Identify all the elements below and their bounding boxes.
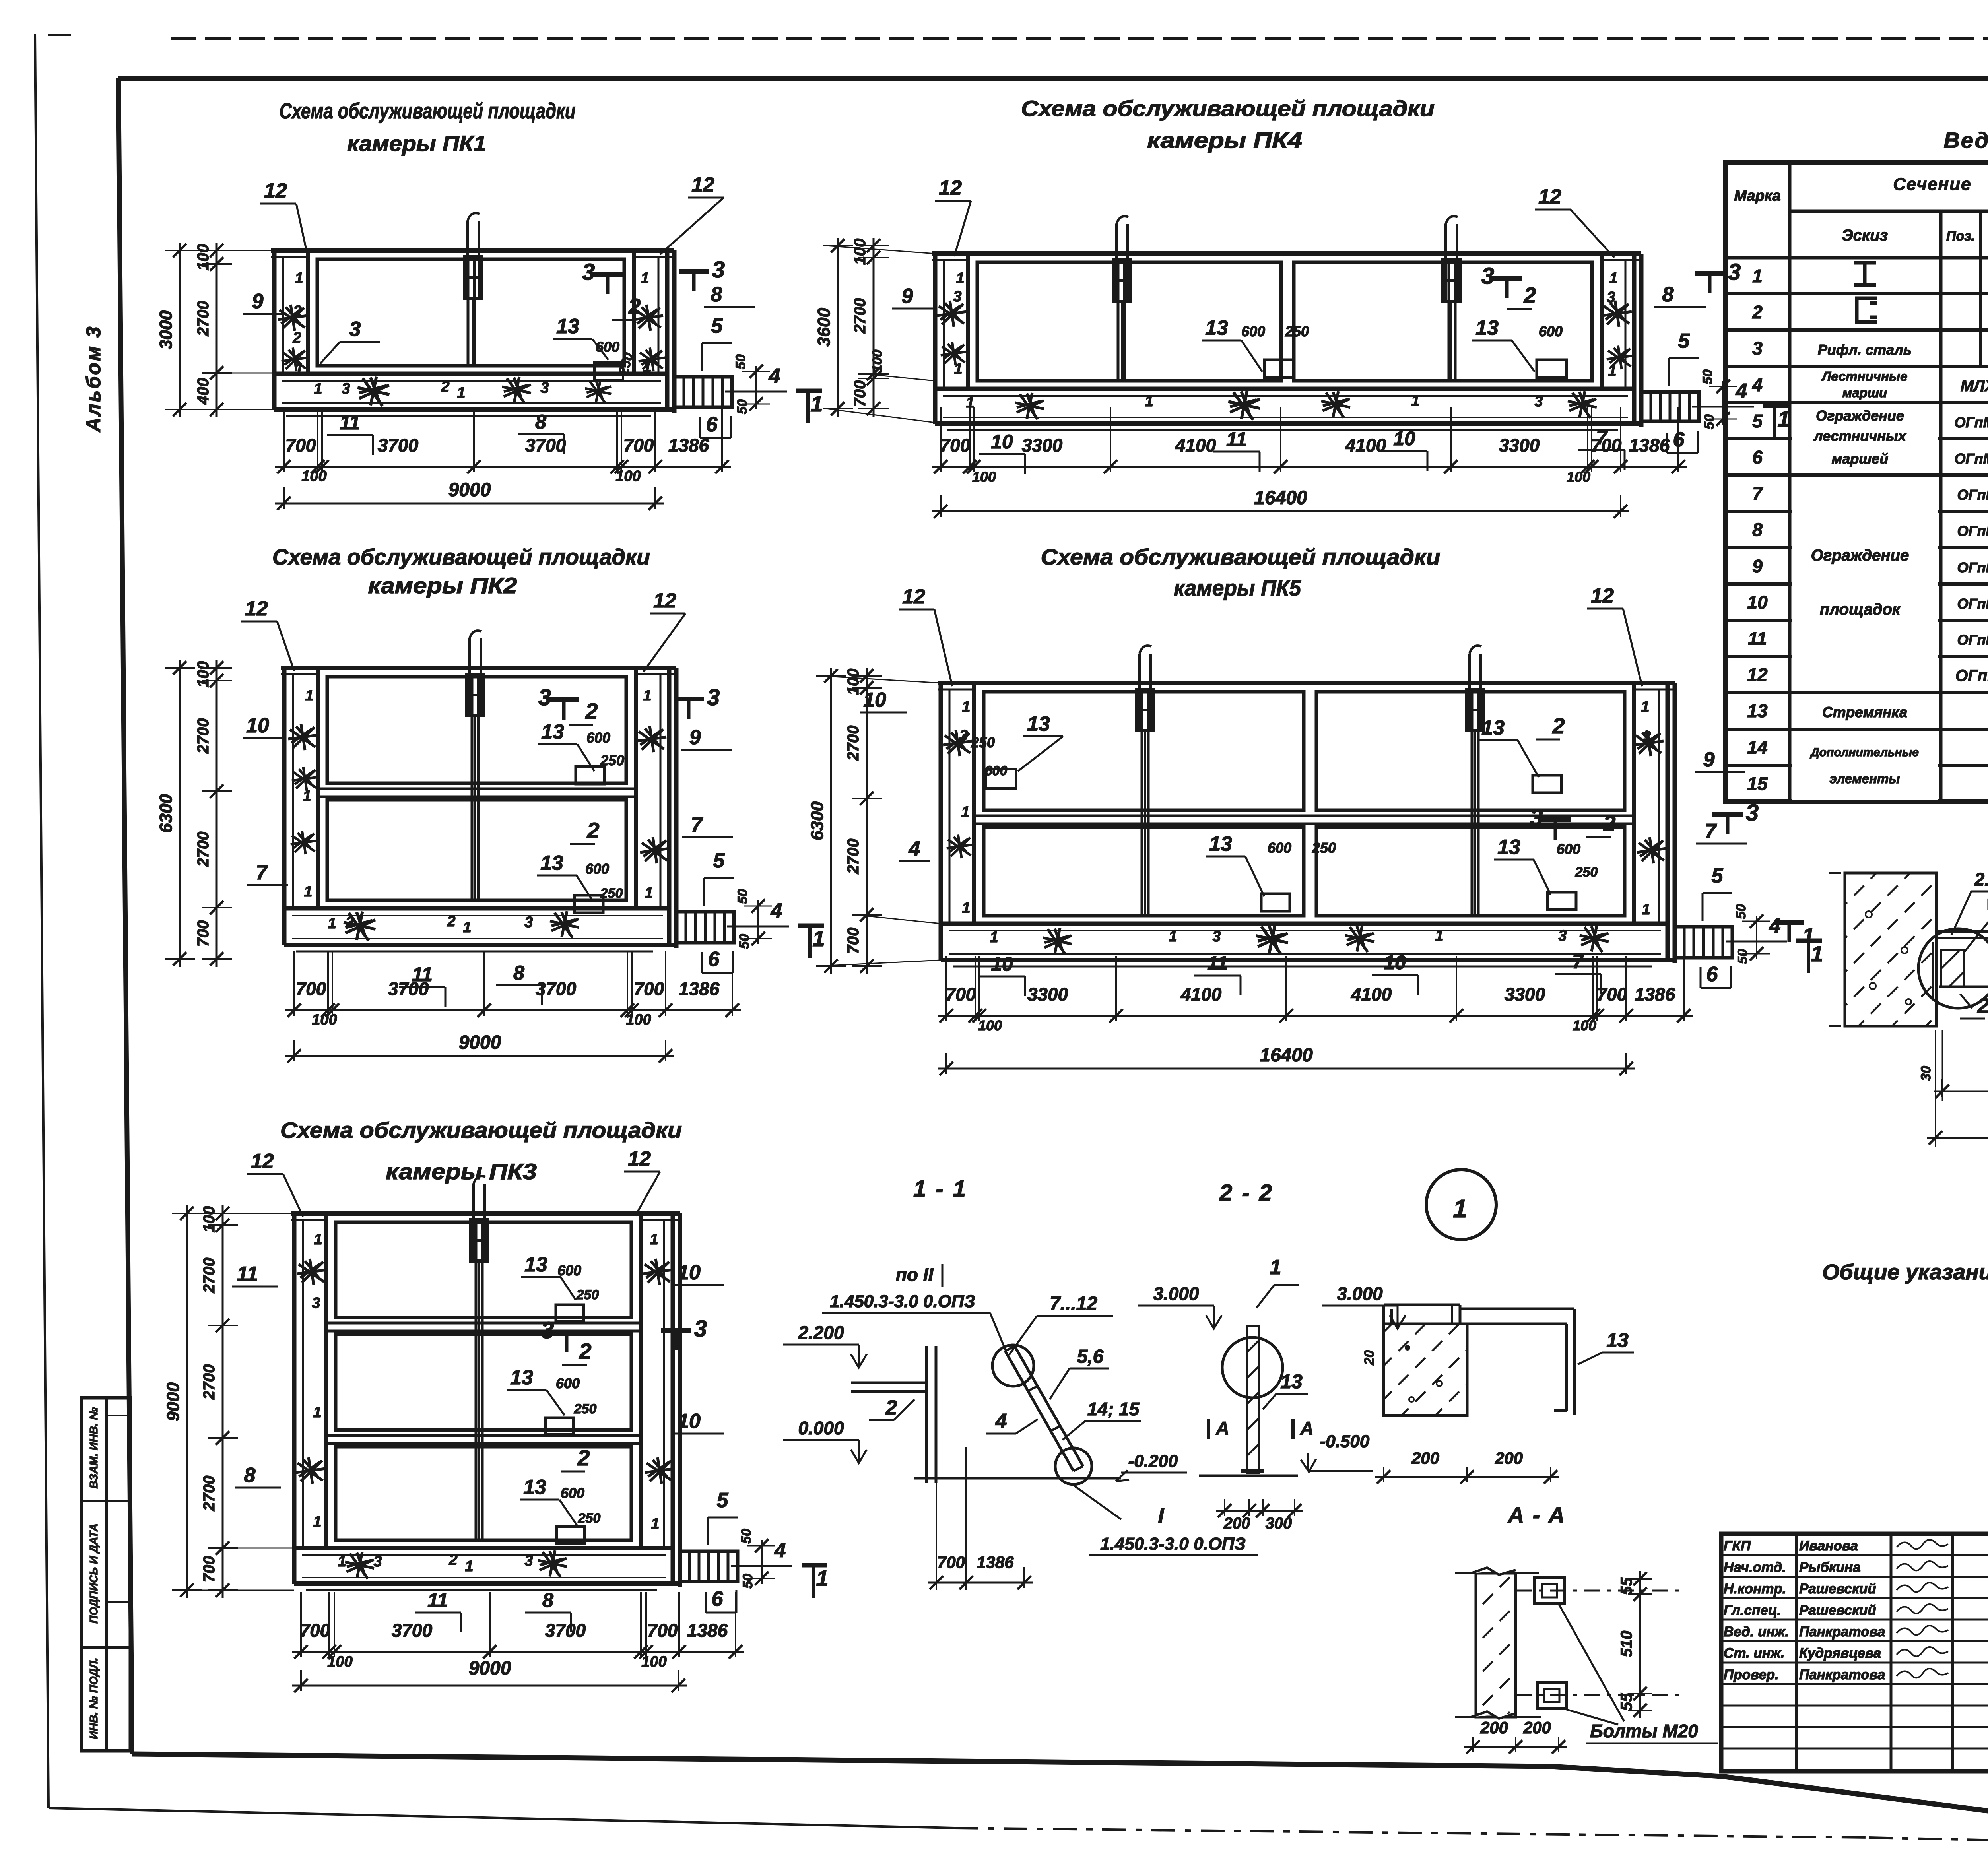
svg-text:4: 4 bbox=[995, 1410, 1007, 1433]
svg-text:A - A: A - A bbox=[1507, 1502, 1567, 1527]
svg-text:ПОДПИСЬ И ДАТА: ПОДПИСЬ И ДАТА bbox=[87, 1523, 100, 1624]
svg-text:Ст. инж.: Ст. инж. bbox=[1724, 1645, 1784, 1661]
svg-text:13: 13 bbox=[523, 1476, 546, 1499]
svg-text:700: 700 bbox=[945, 984, 976, 1005]
svg-text:5: 5 bbox=[1678, 330, 1690, 353]
svg-text:3: 3 bbox=[312, 1295, 320, 1312]
svg-text:13: 13 bbox=[1205, 316, 1228, 340]
svg-text:10: 10 bbox=[246, 714, 269, 737]
svg-text:13: 13 bbox=[1280, 1370, 1303, 1393]
svg-text:1: 1 bbox=[295, 270, 303, 287]
svg-text:1: 1 bbox=[305, 687, 313, 704]
svg-text:2: 2 bbox=[292, 330, 301, 346]
svg-text:3: 3 bbox=[959, 727, 968, 744]
svg-text:700: 700 bbox=[194, 920, 212, 947]
svg-text:2: 2 bbox=[441, 378, 449, 395]
svg-text:2700: 2700 bbox=[200, 1476, 218, 1512]
svg-text:510: 510 bbox=[1618, 1631, 1635, 1657]
svg-text:камеры ПК2: камеры ПК2 bbox=[368, 573, 517, 598]
svg-text:700: 700 bbox=[200, 1556, 218, 1583]
svg-text:700: 700 bbox=[937, 1553, 965, 1572]
svg-text:100: 100 bbox=[327, 1653, 352, 1670]
svg-text:2: 2 bbox=[1977, 994, 1988, 1018]
svg-text:12: 12 bbox=[1591, 584, 1614, 607]
svg-text:6: 6 bbox=[1752, 447, 1763, 468]
svg-text:1: 1 bbox=[816, 1566, 828, 1591]
svg-text:3: 3 bbox=[712, 257, 725, 283]
svg-text:250: 250 bbox=[1285, 323, 1309, 340]
svg-text:3: 3 bbox=[953, 288, 961, 305]
svg-text:50: 50 bbox=[733, 354, 748, 369]
svg-text:4100: 4100 bbox=[1175, 435, 1216, 456]
svg-text:ОГпМХЭБ-10.30: ОГпМХЭБ-10.30 bbox=[1957, 523, 1988, 539]
svg-text:700: 700 bbox=[623, 435, 654, 456]
svg-text:700: 700 bbox=[845, 928, 862, 954]
svg-text:2700: 2700 bbox=[851, 298, 869, 334]
svg-text:9: 9 bbox=[1703, 748, 1715, 771]
svg-text:камеры ПК5: камеры ПК5 bbox=[1174, 575, 1301, 600]
svg-text:100: 100 bbox=[194, 661, 212, 688]
svg-text:16400: 16400 bbox=[1260, 1045, 1313, 1066]
svg-text:1: 1 bbox=[962, 900, 970, 916]
svg-text:13: 13 bbox=[541, 720, 564, 743]
svg-text:1: 1 bbox=[1641, 699, 1649, 715]
svg-text:Поз.: Поз. bbox=[1946, 229, 1975, 244]
svg-text:2700: 2700 bbox=[194, 301, 212, 337]
svg-text:3300: 3300 bbox=[1027, 984, 1068, 1005]
svg-text:9: 9 bbox=[689, 726, 701, 749]
svg-text:3: 3 bbox=[1212, 928, 1221, 945]
svg-text:13: 13 bbox=[1497, 836, 1520, 859]
svg-text:200: 200 bbox=[1480, 1718, 1508, 1737]
svg-text:3: 3 bbox=[540, 380, 549, 396]
svg-text:3: 3 bbox=[538, 685, 551, 710]
svg-text:1: 1 bbox=[463, 919, 471, 936]
svg-text:7: 7 bbox=[691, 813, 703, 836]
svg-text:маршей: маршей bbox=[1832, 450, 1889, 467]
svg-text:1: 1 bbox=[1752, 266, 1763, 286]
svg-text:ГКП: ГКП bbox=[1724, 1538, 1751, 1554]
svg-text:2: 2 bbox=[1523, 283, 1536, 308]
svg-text:Ведомость элементов: Ведомость элементов bbox=[1943, 128, 1988, 153]
svg-text:13: 13 bbox=[1606, 1329, 1629, 1351]
svg-text:2: 2 bbox=[586, 818, 599, 843]
svg-text:12: 12 bbox=[1538, 185, 1561, 208]
svg-text:13: 13 bbox=[524, 1253, 547, 1276]
svg-text:1: 1 bbox=[313, 1404, 321, 1421]
svg-text:13: 13 bbox=[1481, 716, 1505, 739]
svg-text:2: 2 bbox=[293, 303, 301, 320]
svg-text:3: 3 bbox=[342, 380, 350, 397]
svg-text:2: 2 bbox=[447, 913, 455, 930]
svg-text:1: 1 bbox=[1609, 270, 1617, 287]
svg-text:1: 1 bbox=[314, 1231, 322, 1248]
svg-text:3700: 3700 bbox=[545, 1620, 586, 1641]
svg-text:1: 1 bbox=[338, 1553, 346, 1570]
svg-text:100: 100 bbox=[972, 469, 996, 485]
svg-text:250: 250 bbox=[578, 1511, 601, 1526]
svg-text:14: 14 bbox=[1747, 737, 1767, 758]
svg-text:1: 1 bbox=[956, 270, 964, 287]
svg-text:8: 8 bbox=[535, 411, 546, 433]
svg-text:Лестничные: Лестничные bbox=[1821, 369, 1908, 384]
svg-text:A: A bbox=[1215, 1418, 1229, 1438]
svg-text:400: 400 bbox=[194, 378, 212, 405]
svg-text:3: 3 bbox=[1530, 805, 1543, 831]
svg-text:600: 600 bbox=[596, 339, 619, 355]
svg-text:13: 13 bbox=[556, 315, 579, 338]
svg-text:лестничных: лестничных bbox=[1813, 428, 1907, 444]
svg-text:1: 1 bbox=[314, 380, 322, 397]
svg-text:4: 4 bbox=[909, 837, 920, 860]
svg-text:2: 2 bbox=[448, 1552, 457, 1568]
svg-text:площадок: площадок bbox=[1820, 601, 1901, 618]
svg-text:8: 8 bbox=[711, 283, 722, 306]
svg-text:8: 8 bbox=[513, 962, 524, 984]
svg-text:3700: 3700 bbox=[378, 435, 419, 456]
svg-text:100: 100 bbox=[851, 239, 869, 265]
svg-text:4: 4 bbox=[1769, 914, 1781, 937]
svg-text:3: 3 bbox=[373, 1553, 382, 1570]
svg-text:5: 5 bbox=[713, 849, 725, 872]
svg-text:камеры ПК3: камеры ПК3 bbox=[386, 1159, 537, 1184]
svg-text:600: 600 bbox=[561, 1485, 584, 1501]
svg-text:5: 5 bbox=[1712, 864, 1724, 887]
svg-text:50: 50 bbox=[1734, 904, 1749, 919]
svg-text:1: 1 bbox=[465, 1558, 473, 1575]
svg-text:14; 15: 14; 15 bbox=[1087, 1399, 1140, 1419]
svg-text:9000: 9000 bbox=[448, 479, 491, 501]
svg-text:-0.500: -0.500 bbox=[1320, 1432, 1370, 1451]
svg-text:9: 9 bbox=[902, 285, 913, 308]
svg-text:16400: 16400 bbox=[1254, 487, 1307, 508]
svg-text:6: 6 bbox=[712, 1587, 724, 1611]
svg-text:100: 100 bbox=[200, 1206, 218, 1233]
svg-text:20: 20 bbox=[1362, 1350, 1377, 1366]
svg-text:Сечение: Сечение bbox=[1893, 175, 1971, 194]
svg-text:4100: 4100 bbox=[1180, 984, 1222, 1005]
svg-text:3: 3 bbox=[1481, 263, 1494, 289]
svg-text:ОГпМХЭБ-10.9: ОГпМХЭБ-10.9 bbox=[1955, 667, 1988, 685]
svg-text:2700: 2700 bbox=[845, 726, 862, 761]
svg-text:11: 11 bbox=[340, 411, 360, 434]
svg-text:7: 7 bbox=[1752, 483, 1763, 504]
svg-text:13: 13 bbox=[1747, 700, 1768, 721]
svg-text:50: 50 bbox=[1700, 369, 1715, 384]
svg-text:9000: 9000 bbox=[469, 1658, 511, 1679]
svg-text:100: 100 bbox=[870, 350, 885, 373]
svg-text:3: 3 bbox=[1607, 289, 1615, 306]
svg-text:3: 3 bbox=[1728, 259, 1741, 285]
svg-text:11: 11 bbox=[1207, 952, 1228, 974]
svg-text:13: 13 bbox=[1209, 832, 1232, 856]
svg-text:3.000: 3.000 bbox=[1337, 1283, 1383, 1304]
svg-text:марши: марши bbox=[1842, 385, 1887, 400]
svg-text:700: 700 bbox=[634, 978, 664, 999]
svg-text:12: 12 bbox=[628, 1147, 651, 1170]
svg-text:7: 7 bbox=[1572, 951, 1584, 973]
svg-text:1: 1 bbox=[1435, 928, 1443, 944]
svg-text:по II: по II bbox=[896, 1264, 934, 1285]
svg-text:1: 1 bbox=[304, 883, 312, 900]
svg-text:-0.200: -0.200 bbox=[1128, 1451, 1178, 1471]
svg-text:1: 1 bbox=[1802, 924, 1814, 948]
svg-text:1: 1 bbox=[643, 359, 651, 375]
svg-text:3: 3 bbox=[346, 914, 354, 931]
svg-text:3300: 3300 bbox=[1505, 984, 1545, 1005]
svg-text:3: 3 bbox=[524, 1552, 533, 1569]
svg-text:250: 250 bbox=[576, 1287, 599, 1302]
svg-text:11: 11 bbox=[237, 1263, 258, 1286]
svg-text:3: 3 bbox=[1752, 338, 1763, 359]
svg-text:2700: 2700 bbox=[194, 718, 212, 754]
svg-text:10: 10 bbox=[991, 953, 1013, 975]
svg-text:600: 600 bbox=[1241, 323, 1265, 340]
svg-text:11: 11 bbox=[427, 1589, 448, 1611]
svg-text:2.440-1.1 14КМ: 2.440-1.1 14КМ bbox=[1974, 869, 1988, 890]
svg-text:12: 12 bbox=[939, 177, 962, 200]
svg-text:ОГпМХЭБ-10.42: ОГпМХЭБ-10.42 bbox=[1957, 596, 1988, 612]
svg-text:Рыбкина: Рыбкина bbox=[1799, 1560, 1861, 1575]
svg-text:1: 1 bbox=[645, 885, 653, 901]
svg-text:50: 50 bbox=[1702, 414, 1717, 429]
svg-text:250: 250 bbox=[1575, 865, 1598, 880]
svg-text:6: 6 bbox=[1706, 963, 1718, 986]
svg-text:1: 1 bbox=[641, 270, 649, 287]
svg-text:Панкратова: Панкратова bbox=[1799, 1624, 1885, 1640]
svg-text:600: 600 bbox=[1557, 841, 1580, 857]
svg-text:600: 600 bbox=[985, 763, 1008, 778]
svg-text:1: 1 bbox=[962, 699, 970, 715]
svg-text:6300: 6300 bbox=[156, 794, 176, 833]
svg-text:10: 10 bbox=[1393, 427, 1415, 450]
svg-text:3: 3 bbox=[694, 1316, 707, 1342]
svg-text:3: 3 bbox=[524, 914, 533, 931]
svg-text:Вед. инж.: Вед. инж. bbox=[1724, 1624, 1789, 1640]
svg-text:1: 1 bbox=[990, 929, 998, 946]
svg-text:300: 300 bbox=[1266, 1515, 1292, 1532]
svg-text:10: 10 bbox=[678, 1410, 701, 1433]
svg-text:2: 2 bbox=[1603, 811, 1615, 836]
svg-text:1: 1 bbox=[1453, 1194, 1467, 1223]
svg-text:6: 6 bbox=[1673, 428, 1685, 451]
svg-text:7: 7 bbox=[1705, 820, 1717, 843]
svg-text:2: 2 bbox=[577, 1445, 590, 1470]
svg-text:Ограждение: Ограждение bbox=[1811, 547, 1909, 564]
svg-text:1386: 1386 bbox=[977, 1553, 1014, 1572]
svg-text:МЛХШ60-24.6: МЛХШ60-24.6 bbox=[1961, 377, 1988, 395]
svg-text:0.000: 0.000 bbox=[798, 1418, 844, 1438]
svg-text:4: 4 bbox=[769, 365, 780, 388]
svg-text:3: 3 bbox=[707, 685, 720, 710]
svg-text:Схема обслуживающей площадки: Схема обслуживающей площадки bbox=[280, 1118, 682, 1143]
svg-text:Стремянка: Стремянка bbox=[1822, 704, 1907, 720]
svg-text:Рашевский: Рашевский bbox=[1799, 1603, 1876, 1618]
svg-text:1386: 1386 bbox=[1629, 435, 1670, 456]
svg-text:1: 1 bbox=[1145, 393, 1153, 410]
svg-text:Эскиз: Эскиз bbox=[1842, 227, 1888, 244]
svg-text:11: 11 bbox=[412, 963, 433, 986]
svg-text:1: 1 bbox=[810, 391, 823, 416]
svg-text:Провер.: Провер. bbox=[1724, 1667, 1779, 1682]
svg-text:Кудрявцева: Кудрявцева bbox=[1799, 1645, 1881, 1661]
svg-text:Марка: Марка bbox=[1734, 188, 1780, 204]
svg-text:Н.контр.: Н.контр. bbox=[1724, 1581, 1786, 1597]
svg-text:100: 100 bbox=[1567, 469, 1590, 485]
svg-text:600: 600 bbox=[557, 1262, 581, 1279]
svg-text:1386: 1386 bbox=[679, 978, 720, 999]
svg-text:ОГпМЛХ60-10.24: ОГпМЛХ60-10.24 bbox=[1955, 450, 1988, 467]
svg-text:3700: 3700 bbox=[525, 435, 566, 456]
svg-text:7: 7 bbox=[256, 861, 268, 884]
svg-text:3300: 3300 bbox=[1499, 435, 1540, 456]
svg-text:250: 250 bbox=[971, 734, 995, 751]
svg-text:Схема обслуживающей площад: Схема обслуживающей площадки bbox=[1021, 96, 1435, 121]
svg-text:Гл.спец.: Гл.спец. bbox=[1724, 1603, 1781, 1618]
svg-text:4: 4 bbox=[1736, 380, 1747, 403]
svg-text:1: 1 bbox=[812, 926, 825, 951]
svg-text:1: 1 bbox=[328, 915, 336, 932]
svg-text:9000: 9000 bbox=[459, 1032, 501, 1053]
svg-text:3: 3 bbox=[1642, 728, 1651, 745]
svg-text:2: 2 bbox=[885, 1396, 897, 1419]
svg-text:250: 250 bbox=[574, 1401, 597, 1417]
svg-text:4100: 4100 bbox=[1351, 984, 1392, 1005]
svg-text:Рашевский: Рашевский bbox=[1799, 1581, 1876, 1597]
svg-text:10: 10 bbox=[991, 431, 1013, 453]
svg-text:A: A bbox=[1300, 1418, 1313, 1438]
svg-text:ВЗАМ. ИНВ. №: ВЗАМ. ИНВ. № bbox=[87, 1407, 100, 1489]
svg-text:1: 1 bbox=[457, 384, 465, 401]
svg-text:4: 4 bbox=[1752, 375, 1763, 395]
svg-text:100: 100 bbox=[978, 1017, 1002, 1034]
svg-text:100: 100 bbox=[626, 1011, 651, 1028]
svg-text:50: 50 bbox=[737, 934, 752, 949]
svg-text:1386: 1386 bbox=[1635, 984, 1675, 1005]
svg-text:2700: 2700 bbox=[200, 1258, 218, 1294]
svg-text:1: 1 bbox=[1169, 928, 1177, 945]
svg-text:2 - 2: 2 - 2 bbox=[1219, 1180, 1274, 1206]
svg-text:Альбом 3: Альбом 3 bbox=[82, 325, 105, 433]
svg-text:Болты М20: Болты М20 bbox=[1590, 1721, 1698, 1741]
svg-text:50: 50 bbox=[735, 889, 750, 904]
svg-text:100: 100 bbox=[194, 244, 212, 271]
svg-text:100: 100 bbox=[301, 468, 326, 485]
svg-text:3000: 3000 bbox=[156, 310, 176, 349]
svg-text:13: 13 bbox=[1027, 712, 1050, 735]
svg-text:3300: 3300 bbox=[1022, 435, 1063, 456]
svg-text:1.450.3-3.0 0.ОПЗ: 1.450.3-3.0 0.ОПЗ bbox=[830, 1292, 975, 1311]
svg-text:3700: 3700 bbox=[392, 1620, 433, 1641]
svg-text:элементы: элементы bbox=[1830, 771, 1900, 786]
svg-text:I: I bbox=[1158, 1504, 1164, 1527]
svg-text:8: 8 bbox=[542, 1589, 553, 1611]
svg-text:4: 4 bbox=[774, 1539, 786, 1562]
svg-text:12: 12 bbox=[264, 179, 287, 202]
svg-text:2.200: 2.200 bbox=[798, 1322, 844, 1343]
svg-text:200: 200 bbox=[1523, 1718, 1551, 1737]
svg-text:700: 700 bbox=[296, 978, 326, 999]
svg-text:10: 10 bbox=[1384, 951, 1406, 974]
svg-text:15: 15 bbox=[1747, 773, 1768, 794]
svg-text:2: 2 bbox=[579, 1339, 591, 1364]
svg-text:50: 50 bbox=[740, 1574, 755, 1589]
svg-text:1: 1 bbox=[651, 1515, 659, 1532]
svg-text:Панкратова: Панкратова bbox=[1799, 1667, 1885, 1682]
svg-text:ОГпМЛХ60-10.24: ОГпМЛХ60-10.24 bbox=[1955, 414, 1988, 431]
svg-text:700: 700 bbox=[300, 1620, 330, 1641]
svg-text:1.450.3-3.0 0.ОПЗ: 1.450.3-3.0 0.ОПЗ bbox=[1100, 1534, 1246, 1554]
svg-text:250: 250 bbox=[1312, 840, 1336, 856]
svg-text:Схема обслуживающей площадки: Схема обслуживающей площадки bbox=[1041, 544, 1441, 569]
svg-text:1: 1 bbox=[1411, 392, 1419, 409]
svg-text:ОГпМХЭБ-10.36: ОГпМХЭБ-10.36 bbox=[1957, 559, 1988, 576]
svg-text:1386: 1386 bbox=[687, 1620, 728, 1641]
svg-text:11: 11 bbox=[1748, 628, 1767, 649]
svg-text:Общие указания см. лист 3.: Общие указания см. лист 3. bbox=[1822, 1260, 1988, 1284]
svg-text:200: 200 bbox=[1223, 1515, 1250, 1532]
svg-text:5: 5 bbox=[711, 314, 723, 338]
svg-text:ИНВ. № ПОДЛ.: ИНВ. № ПОДЛ. bbox=[87, 1658, 100, 1739]
svg-text:2700: 2700 bbox=[845, 839, 862, 875]
svg-text:6300: 6300 bbox=[808, 801, 827, 840]
svg-text:ОГпМХЭБ-10.60: ОГпМХЭБ-10.60 bbox=[1957, 632, 1988, 648]
svg-text:Схема обслуживающей площад: Схема обслуживающей площадки bbox=[280, 98, 576, 123]
svg-text:1: 1 bbox=[1642, 901, 1650, 918]
svg-text:700: 700 bbox=[285, 435, 316, 456]
svg-text:3: 3 bbox=[582, 259, 595, 285]
svg-text:1: 1 bbox=[650, 1231, 658, 1248]
svg-text:10: 10 bbox=[863, 689, 886, 712]
svg-text:8: 8 bbox=[1662, 283, 1674, 306]
svg-text:Иванова: Иванова bbox=[1799, 1538, 1858, 1554]
svg-text:Дополнительные: Дополнительные bbox=[1809, 746, 1919, 759]
svg-text:1: 1 bbox=[295, 361, 303, 377]
svg-text:100: 100 bbox=[641, 1653, 666, 1670]
svg-text:Схема обслуживающей площадки: Схема обслуживающей площадки bbox=[272, 544, 650, 569]
svg-text:2: 2 bbox=[1752, 302, 1763, 322]
svg-text:2: 2 bbox=[585, 699, 598, 724]
svg-text:12: 12 bbox=[902, 585, 925, 608]
svg-text:12: 12 bbox=[691, 173, 714, 196]
svg-text:1: 1 bbox=[1270, 1256, 1281, 1279]
svg-text:7...12: 7...12 bbox=[1050, 1293, 1097, 1314]
svg-text:1: 1 bbox=[961, 804, 969, 821]
svg-text:12: 12 bbox=[1747, 664, 1768, 685]
svg-text:200: 200 bbox=[1411, 1449, 1439, 1467]
svg-text:12: 12 bbox=[653, 589, 676, 612]
svg-text:камеры ПК1: камеры ПК1 bbox=[347, 131, 486, 156]
svg-text:3: 3 bbox=[349, 318, 361, 341]
svg-text:1: 1 bbox=[954, 361, 962, 377]
svg-text:Рифл. сталь: Рифл. сталь bbox=[1818, 342, 1912, 358]
svg-text:10: 10 bbox=[1747, 592, 1768, 613]
svg-text:100: 100 bbox=[615, 468, 641, 485]
svg-text:13: 13 bbox=[540, 852, 563, 875]
svg-text:3: 3 bbox=[1534, 393, 1543, 410]
svg-text:3: 3 bbox=[1746, 800, 1759, 826]
svg-text:Нач.отд.: Нач.отд. bbox=[1724, 1560, 1786, 1575]
svg-text:1: 1 bbox=[1777, 406, 1790, 431]
svg-text:Ограждение: Ограждение bbox=[1816, 407, 1904, 424]
svg-text:2700: 2700 bbox=[194, 832, 212, 867]
svg-text:5: 5 bbox=[1752, 411, 1763, 431]
svg-text:100: 100 bbox=[312, 1011, 337, 1028]
svg-text:2: 2 bbox=[628, 294, 641, 319]
svg-text:3: 3 bbox=[1558, 928, 1567, 944]
svg-text:9: 9 bbox=[252, 290, 264, 313]
svg-text:камеры ПК4: камеры ПК4 bbox=[1147, 128, 1302, 153]
